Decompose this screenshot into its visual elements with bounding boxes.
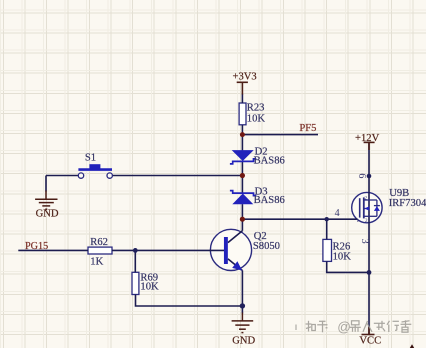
svg-text:+3V3: +3V3 <box>233 72 257 83</box>
svg-text:BAS86: BAS86 <box>254 195 285 206</box>
svg-text:BAS86: BAS86 <box>254 155 285 166</box>
svg-text:R62: R62 <box>90 237 108 248</box>
svg-text:GND: GND <box>36 208 59 219</box>
svg-text:4: 4 <box>335 208 340 219</box>
svg-text:PG15: PG15 <box>25 241 48 252</box>
svg-text:10K: 10K <box>333 252 352 263</box>
svg-text:IRF7304: IRF7304 <box>389 198 426 209</box>
svg-text:+12V: +12V <box>355 133 380 144</box>
svg-text:S1: S1 <box>85 153 96 164</box>
svg-text:6: 6 <box>356 173 367 178</box>
svg-text:10K: 10K <box>140 282 159 293</box>
svg-text:S8050: S8050 <box>253 241 280 252</box>
svg-text:10K: 10K <box>247 113 266 124</box>
svg-text:R23: R23 <box>247 103 265 114</box>
svg-text:3: 3 <box>359 239 370 244</box>
svg-text:PF5: PF5 <box>299 123 316 134</box>
svg-text:VCC: VCC <box>359 336 381 347</box>
svg-text:GND: GND <box>232 335 255 346</box>
svg-text:@: @ <box>337 319 351 334</box>
svg-text:1K: 1K <box>90 257 103 268</box>
